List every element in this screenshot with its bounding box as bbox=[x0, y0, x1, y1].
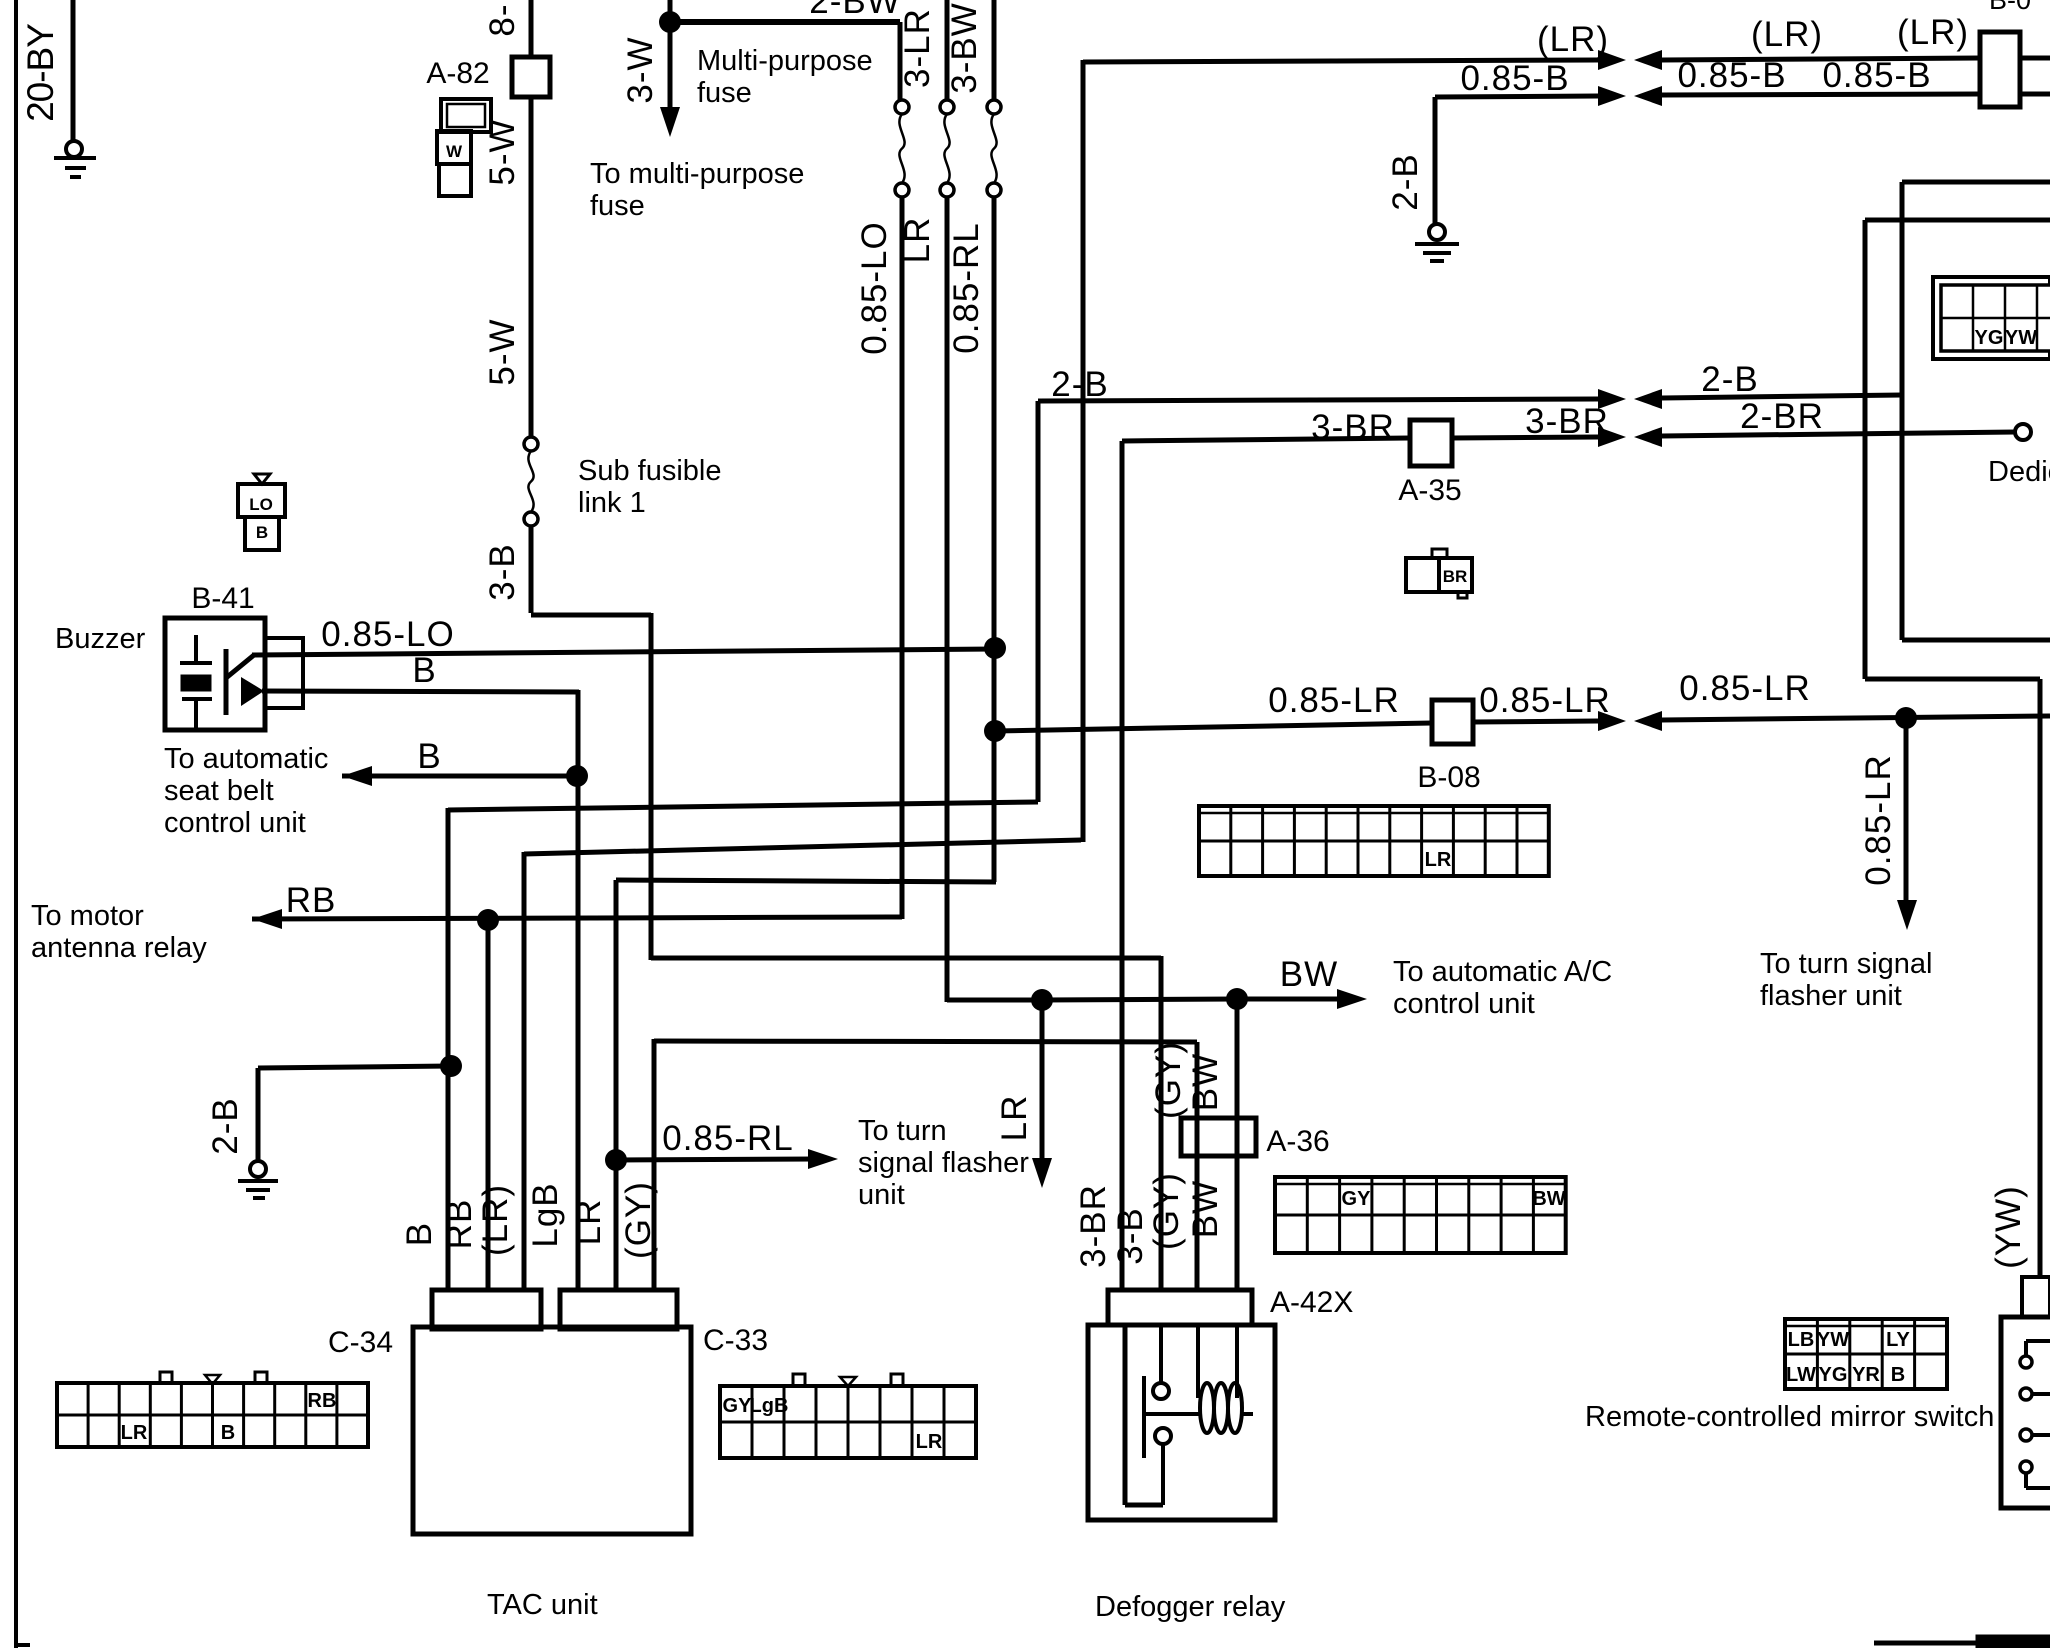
svg-text:LO: LO bbox=[249, 495, 273, 514]
fusible link 1 symbol bbox=[524, 437, 538, 451]
pin table B-08 row bbox=[1199, 806, 1549, 876]
pin table C-33 bbox=[720, 1386, 976, 1458]
svg-text:link 1: link 1 bbox=[578, 487, 646, 519]
svg-text:0.85-B: 0.85-B bbox=[1460, 59, 1569, 98]
svg-text:YG: YG bbox=[1819, 1364, 1848, 1386]
svg-text:BW: BW bbox=[1186, 1053, 1225, 1111]
svg-text:YG: YG bbox=[1975, 327, 2004, 349]
svg-text:Buzzer: Buzzer bbox=[55, 623, 146, 655]
pin table C-34 bbox=[57, 1383, 368, 1447]
wire 0.85-B to connector bbox=[1662, 94, 1980, 95]
fusible link 0.85-RL bbox=[987, 100, 1001, 114]
connector LO-B symbol bbox=[254, 474, 270, 484]
wire (LR) riser bbox=[1081, 60, 1086, 842]
svg-text:2-B: 2-B bbox=[1386, 153, 1425, 210]
svg-text:0.85-LO: 0.85-LO bbox=[321, 615, 454, 654]
wire 5-W vertical bbox=[529, 97, 534, 437]
wire 0.85-LR horizontal bbox=[995, 723, 1432, 731]
svg-text:B-08: B-08 bbox=[1417, 761, 1480, 794]
wire (LR) to connector bbox=[1662, 58, 1980, 60]
fusible link 0.85-LO bbox=[895, 100, 909, 114]
defogger relay box bbox=[1088, 1325, 1275, 1520]
svg-text:5-W: 5-W bbox=[483, 318, 522, 385]
svg-text:LW: LW bbox=[1786, 1364, 1816, 1386]
wire 3-B elbow bbox=[531, 613, 651, 618]
wire y803 horizontal bbox=[448, 802, 1038, 810]
ground G2 bbox=[238, 1179, 278, 1183]
splice arrows 3-BR bbox=[1598, 427, 1626, 447]
ground G1 bbox=[54, 156, 96, 160]
svg-text:antenna relay: antenna relay bbox=[31, 932, 207, 964]
svg-text:B: B bbox=[400, 1222, 439, 1246]
node junction BW bbox=[1226, 988, 1248, 1010]
wire 3-BR right bbox=[1452, 437, 1598, 438]
bottom right bar bbox=[1874, 1641, 1978, 1646]
svg-text:B: B bbox=[417, 737, 440, 776]
wire 20-BY vertical bbox=[71, 0, 76, 141]
svg-text:2-BR: 2-BR bbox=[1740, 397, 1824, 436]
svg-text:To turn: To turn bbox=[858, 1115, 947, 1147]
svg-text:To automatic A/C: To automatic A/C bbox=[1393, 956, 1612, 988]
svg-text:B: B bbox=[1891, 1364, 1905, 1386]
buzzer B-41 box bbox=[165, 618, 265, 730]
svg-text:(LR): (LR) bbox=[476, 1184, 515, 1256]
svg-text:0.85-LR: 0.85-LR bbox=[1679, 669, 1811, 708]
svg-text:2-B: 2-B bbox=[206, 1097, 245, 1154]
svg-text:YR: YR bbox=[1852, 1364, 1880, 1386]
fusible link LR bbox=[940, 100, 954, 114]
connector A-36 bbox=[1181, 1118, 1256, 1156]
svg-text:C-33: C-33 bbox=[703, 1324, 768, 1357]
svg-text:YW: YW bbox=[2005, 327, 2037, 349]
svg-text:BR: BR bbox=[1443, 567, 1468, 586]
terminal circle 2-BR bbox=[2015, 424, 2031, 440]
wire 3-BR vertical bbox=[1120, 441, 1125, 1292]
svg-text:B: B bbox=[412, 651, 435, 690]
svg-text:TAC unit: TAC unit bbox=[487, 1589, 598, 1621]
mirror switch contact 3 bbox=[2020, 1429, 2032, 1441]
svg-text:RB: RB bbox=[308, 1390, 337, 1412]
wire RB horizontal bbox=[252, 917, 902, 919]
wire (LR) off page bbox=[2020, 56, 2050, 61]
node junction LR bottom bbox=[1031, 989, 1053, 1011]
terminal circle 2-B bbox=[250, 1161, 266, 1177]
wire 2-B vertical bbox=[256, 1068, 261, 1162]
wire 0.85-LR down arrow bbox=[1904, 718, 1909, 902]
svg-text:3-BW: 3-BW bbox=[945, 2, 984, 94]
svg-text:W: W bbox=[446, 142, 463, 161]
wire LR down arrow bbox=[1040, 1000, 1045, 1160]
relay pin 3-BR internal bbox=[1123, 1325, 1128, 1505]
svg-text:LgB: LgB bbox=[526, 1182, 565, 1247]
svg-text:LR: LR bbox=[995, 1095, 1034, 1142]
svg-text:B: B bbox=[221, 1422, 235, 1444]
svg-text:3-W: 3-W bbox=[621, 36, 660, 103]
svg-text:LR: LR bbox=[121, 1422, 148, 1444]
mirror switch tab bbox=[2022, 1277, 2050, 1317]
wire B corner down bbox=[576, 690, 581, 1292]
fuse block on A-82 wire bbox=[512, 57, 550, 97]
connector BR symbol bbox=[1406, 558, 1472, 592]
wire BW horizontal bbox=[1042, 999, 1237, 1000]
svg-text:5-W: 5-W bbox=[483, 118, 522, 185]
svg-text:A-82: A-82 bbox=[426, 57, 489, 90]
splice arrows 0.85-B bbox=[1598, 86, 1626, 106]
svg-text:LR: LR bbox=[916, 1431, 943, 1453]
svg-text:seat belt: seat belt bbox=[164, 775, 274, 807]
connector A-82 symbol bbox=[441, 99, 491, 132]
pin table mirror switch bbox=[1785, 1319, 1947, 1389]
wire (LR)-pin vertical bbox=[522, 852, 527, 1292]
svg-text:(GY): (GY) bbox=[1149, 1041, 1188, 1119]
svg-text:B: B bbox=[256, 523, 268, 542]
wire 2-B to connector bbox=[1662, 395, 1902, 398]
wire 3-B vertical upper bbox=[529, 526, 534, 613]
wire GY horizontal bbox=[654, 1041, 1197, 1042]
wire (LR) top horizontal bbox=[1083, 60, 1598, 62]
splice arrows (LR) bbox=[1598, 50, 1626, 70]
relay pin 3-B internal bbox=[1159, 1325, 1163, 1383]
svg-text:3-BR: 3-BR bbox=[1525, 402, 1609, 441]
relay armature bbox=[1142, 1376, 1146, 1458]
svg-text:Multi-purpose: Multi-purpose bbox=[697, 45, 873, 77]
wire outer feed top bbox=[1865, 218, 2050, 223]
splice arrows 2-B bbox=[1598, 389, 1626, 409]
svg-text:To multi-purpose: To multi-purpose bbox=[590, 158, 804, 190]
buzzer capacitor symbol bbox=[194, 635, 198, 663]
connector box top right bbox=[1980, 32, 2020, 107]
svg-text:0.85-RL: 0.85-RL bbox=[662, 1119, 794, 1158]
wire B-pin vertical bbox=[446, 808, 451, 1292]
svg-text:Dedicated fuse: Dedicated fuse bbox=[1988, 456, 2050, 488]
svg-text:(GY): (GY) bbox=[619, 1181, 658, 1259]
mirror switch contact 1 bbox=[2026, 1339, 2050, 1343]
wire 0.85-LO from buzzer bbox=[252, 649, 995, 655]
svg-text:2-B: 2-B bbox=[1701, 360, 1758, 399]
svg-text:RB: RB bbox=[286, 881, 337, 920]
terminal circle 0.85-B gnd bbox=[1429, 224, 1445, 240]
relay pin GY internal bbox=[1196, 1325, 1200, 1398]
svg-text:3-BR: 3-BR bbox=[1311, 408, 1395, 447]
mirror switch contact 2 bbox=[2020, 1388, 2032, 1400]
connector A-35 bbox=[1410, 420, 1452, 466]
pin table A-36 row bbox=[1275, 1177, 1566, 1253]
connector B-08 bbox=[1432, 700, 1473, 744]
svg-text:0.85-RL: 0.85-RL bbox=[947, 222, 986, 354]
wire LR bottom elbow bbox=[947, 998, 1042, 1003]
svg-text:LR: LR bbox=[1425, 849, 1452, 871]
svg-text:0.85-LR: 0.85-LR bbox=[1268, 681, 1400, 720]
svg-text:3-B: 3-B bbox=[1111, 1207, 1150, 1264]
wire B arrow left bbox=[342, 774, 578, 779]
node junction 2-B bbox=[440, 1055, 462, 1077]
svg-text:C-34: C-34 bbox=[328, 1326, 393, 1359]
svg-text:Defogger relay: Defogger relay bbox=[1095, 1591, 1286, 1623]
ground G3 bbox=[1415, 242, 1459, 246]
svg-text:8-: 8- bbox=[483, 3, 522, 36]
wire 8-W vertical bbox=[529, 0, 534, 57]
svg-text:(LR): (LR) bbox=[1897, 13, 1969, 52]
wire BW vertical bbox=[1235, 999, 1240, 1292]
svg-text:3-B: 3-B bbox=[483, 543, 522, 600]
svg-text:BW: BW bbox=[1532, 1188, 1565, 1210]
svg-text:GY: GY bbox=[723, 1395, 753, 1417]
wire outer feed bottom bbox=[1865, 677, 2040, 682]
pin table YG YW bbox=[1933, 277, 2050, 359]
wire 0.85-RL arrow bbox=[616, 1159, 816, 1160]
svg-text:2-BW: 2-BW bbox=[809, 0, 901, 21]
svg-text:control unit: control unit bbox=[164, 807, 306, 839]
wire 2-B to arrows bbox=[1038, 399, 1598, 401]
svg-text:(YW): (YW) bbox=[1989, 1185, 2028, 1269]
wire RB vertical to C-34 bbox=[486, 920, 491, 1292]
connector C-34 tab bbox=[432, 1290, 541, 1329]
wire y842 horizontal bbox=[524, 840, 1081, 854]
svg-text:GY: GY bbox=[1342, 1188, 1372, 1210]
wire 2-BW corner down bbox=[898, 22, 903, 107]
buzzer connector tab bbox=[265, 638, 303, 708]
svg-text:fuse: fuse bbox=[697, 77, 752, 109]
svg-text:0.85-LR: 0.85-LR bbox=[1479, 681, 1611, 720]
splice arrows 0.85-LR bbox=[1598, 711, 1626, 731]
node junction 0.85-LR bbox=[984, 720, 1006, 742]
relay contact lower bbox=[1155, 1428, 1171, 1444]
TAC unit box bbox=[413, 1327, 691, 1534]
svg-text:LgB: LgB bbox=[750, 1395, 789, 1417]
wire LR vertical bbox=[945, 197, 950, 1002]
wire 0.85-LO vertical bbox=[900, 197, 905, 919]
mirror switch contact 4 bbox=[2020, 1461, 2032, 1473]
wire 0.85-RL vertical bbox=[992, 197, 997, 882]
wire inner feed top bbox=[1902, 180, 2050, 185]
svg-text:B-0: B-0 bbox=[1989, 0, 2031, 15]
svg-text:YW: YW bbox=[1817, 1329, 1849, 1351]
svg-text:0.85-LO: 0.85-LO bbox=[855, 221, 894, 354]
svg-text:B-41: B-41 bbox=[191, 582, 254, 615]
node junction RB bbox=[477, 909, 499, 931]
node junction B bbox=[566, 765, 588, 787]
svg-text:Remote-controlled mirror switc: Remote-controlled mirror switch bbox=[1585, 1401, 1994, 1433]
svg-text:3-LR: 3-LR bbox=[898, 8, 937, 88]
node junction 0.85-RL bbox=[605, 1149, 627, 1171]
wire 3-B vertical to A-42X bbox=[1159, 956, 1164, 1292]
wire 3-B horizontal bbox=[651, 956, 1161, 961]
svg-text:(GY): (GY) bbox=[1147, 1172, 1186, 1250]
svg-text:BW: BW bbox=[1186, 1180, 1225, 1238]
wire 0.85-LR mid bbox=[1473, 721, 1598, 722]
mirror switch box bbox=[2001, 1317, 2050, 1508]
svg-text:2-B: 2-B bbox=[1051, 365, 1108, 404]
wire LR-pin vertical bbox=[614, 880, 619, 1292]
svg-text:(LR): (LR) bbox=[1751, 15, 1823, 54]
svg-text:A-36: A-36 bbox=[1266, 1125, 1329, 1158]
wire outer feed vertical bbox=[1863, 220, 1868, 679]
wire 0.85-LR right bbox=[1662, 716, 2050, 720]
wire 2-BW horizontal bbox=[670, 19, 900, 25]
wire 2-B down bbox=[1433, 97, 1438, 225]
wire 3-LR vertical bbox=[945, 0, 950, 107]
connector C-33 tab bbox=[560, 1290, 677, 1329]
svg-text:0.85-B: 0.85-B bbox=[1822, 56, 1931, 95]
svg-text:To automatic: To automatic bbox=[164, 743, 328, 775]
relay coil bbox=[1200, 1383, 1214, 1433]
wire inner feed bottom bbox=[1902, 638, 2050, 643]
wire (YW) vertical bbox=[2038, 679, 2043, 1279]
wire 2-BR right bbox=[1662, 432, 2016, 436]
wire B from buzzer bbox=[262, 691, 579, 692]
wire LR-pin elbow bbox=[616, 880, 996, 882]
wire 3-B vertical mid bbox=[649, 613, 654, 960]
wire 0.85-B off page bbox=[2020, 92, 2050, 97]
svg-text:BW: BW bbox=[1280, 955, 1338, 994]
svg-text:Sub fusible: Sub fusible bbox=[578, 455, 722, 487]
wire BW arrow right bbox=[1237, 997, 1345, 1002]
relay pin BW internal bbox=[1235, 1325, 1239, 1398]
svg-text:0.85-LR: 0.85-LR bbox=[1859, 754, 1898, 886]
svg-text:RB: RB bbox=[440, 1199, 479, 1250]
wire GY-pin vertical bbox=[652, 1039, 657, 1292]
svg-text:flasher unit: flasher unit bbox=[1760, 980, 1902, 1012]
svg-text:To motor: To motor bbox=[31, 900, 144, 932]
svg-text:20-BY: 20-BY bbox=[20, 24, 61, 122]
svg-text:LB: LB bbox=[1788, 1329, 1815, 1351]
svg-text:LY: LY bbox=[1886, 1329, 1910, 1351]
wire GY vertical to A-42X bbox=[1195, 1042, 1200, 1292]
node junction 0.85-LR right bbox=[1895, 707, 1917, 729]
wire 2-BW stub up bbox=[668, 0, 673, 24]
svg-text:3-BR: 3-BR bbox=[1074, 1184, 1113, 1268]
svg-text:LR: LR bbox=[569, 1199, 608, 1246]
svg-text:0.85-B: 0.85-B bbox=[1677, 56, 1786, 95]
svg-text:A-42X: A-42X bbox=[1270, 1286, 1353, 1319]
svg-text:To turn signal: To turn signal bbox=[1760, 948, 1933, 980]
svg-text:A-35: A-35 bbox=[1398, 474, 1461, 507]
node junction 2-BW bbox=[659, 11, 681, 33]
wire inner feed vertical bbox=[1900, 182, 1905, 640]
wire 2-B riser bbox=[1036, 401, 1041, 802]
svg-text:unit: unit bbox=[858, 1179, 905, 1211]
relay contact upper bbox=[1153, 1383, 1169, 1399]
buzzer sounder symbol bbox=[224, 649, 229, 715]
wire 3-BW vertical bbox=[992, 0, 997, 107]
terminal circle 20-BY bbox=[66, 141, 82, 157]
wire 2-B horizontal bbox=[258, 1066, 451, 1068]
svg-text:control unit: control unit bbox=[1393, 988, 1535, 1020]
wire 3-BR horizontal bbox=[1122, 438, 1410, 441]
wire 3-W arrow bbox=[668, 22, 673, 112]
page border line bbox=[14, 0, 18, 1648]
wire 0.85-B horizontal bbox=[1435, 96, 1598, 97]
svg-text:LR: LR bbox=[898, 217, 937, 264]
svg-text:signal flasher: signal flasher bbox=[858, 1147, 1029, 1179]
connector A-42X tab bbox=[1108, 1290, 1252, 1325]
node junction LO bbox=[984, 637, 1006, 659]
svg-text:fuse: fuse bbox=[590, 190, 645, 222]
